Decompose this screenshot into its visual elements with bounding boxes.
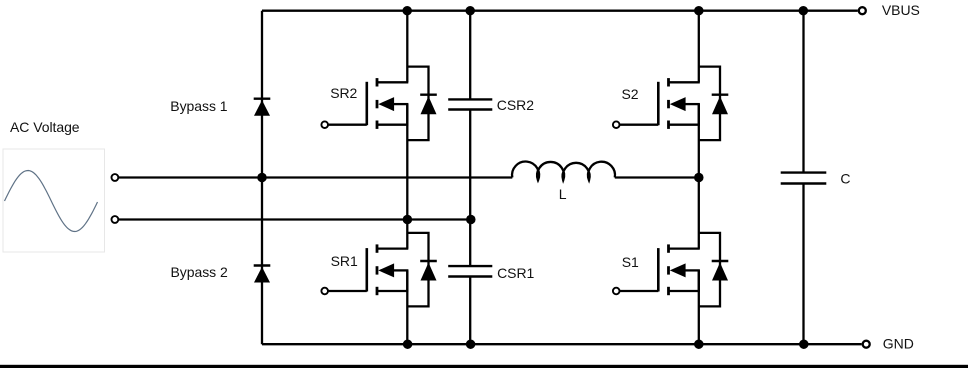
svg-text:CSR1: CSR1 (497, 265, 534, 281)
svg-text:CSR2: CSR2 (497, 97, 534, 113)
svg-text:L: L (559, 186, 567, 202)
svg-text:Bypass 1: Bypass 1 (170, 98, 227, 114)
svg-text:SR2: SR2 (330, 85, 357, 101)
svg-text:S1: S1 (622, 254, 639, 270)
svg-text:C: C (840, 170, 850, 186)
svg-text:GND: GND (883, 335, 914, 351)
svg-text:S2: S2 (622, 86, 639, 102)
svg-text:AC Voltage: AC Voltage (10, 119, 80, 135)
svg-text:SR1: SR1 (331, 253, 358, 269)
svg-text:VBUS: VBUS (882, 2, 920, 18)
svg-text:Bypass 2: Bypass 2 (171, 264, 228, 280)
